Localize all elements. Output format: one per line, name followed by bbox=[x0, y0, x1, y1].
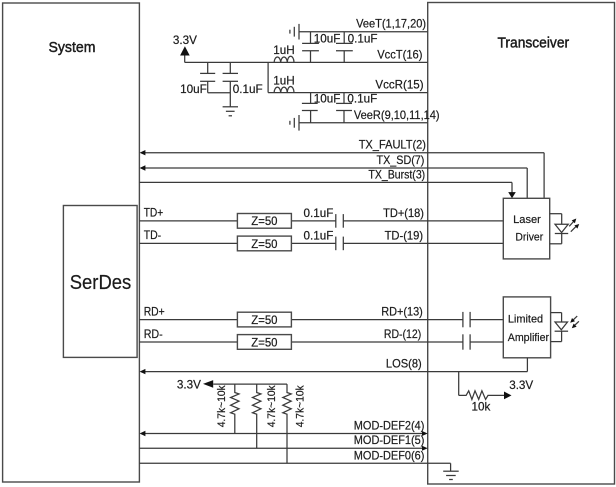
wire photodiode loop bottom bbox=[551, 341, 562, 343]
svg-text:TD+: TD+ bbox=[144, 207, 164, 220]
wire LED cathode lead bbox=[561, 234, 563, 244]
resistor Z=50 TD- bbox=[237, 236, 291, 251]
capacitor C10 bbox=[462, 334, 464, 349]
svg-text:MOD-DEF2(4): MOD-DEF2(4) bbox=[354, 420, 425, 433]
wire 3.3V pull-up rail bbox=[213, 383, 287, 385]
wire photodiode cathode lead bbox=[561, 331, 563, 341]
System box bbox=[3, 3, 140, 482]
wire TD+ segment 1 bbox=[139, 220, 237, 222]
resistor Z=50 RD- bbox=[237, 335, 291, 350]
arrow MOD-DEF2 into System bbox=[140, 431, 146, 436]
photodiode D2 triangle bbox=[555, 322, 568, 330]
wire LED anode loop top bbox=[550, 213, 562, 215]
svg-text:4.7k~10k: 4.7k~10k bbox=[266, 385, 278, 427]
photodiode D2 cathode bar bbox=[555, 330, 569, 332]
wire MOD-DEF0 drop to ground bbox=[450, 463, 452, 471]
wire VeeT rail bbox=[299, 31, 428, 33]
resistor R1 4.7k~10k pull-up bbox=[231, 384, 239, 433]
wire VccT rail bbox=[185, 61, 428, 63]
power arrow 3.3V up bbox=[180, 46, 190, 55]
wire RD+ segment 2 pin 13 bbox=[291, 319, 463, 321]
inductor L1 1uH bbox=[274, 56, 294, 62]
svg-text:VccT(16): VccT(16) bbox=[377, 48, 422, 61]
capacitor C9 bbox=[462, 312, 464, 327]
wire LOS vertical from Limited Amplifier bbox=[526, 358, 528, 372]
svg-text:Z=50: Z=50 bbox=[251, 238, 278, 251]
svg-text:0.1uF: 0.1uF bbox=[233, 83, 263, 96]
LED D1 cathode bar bbox=[555, 233, 568, 235]
capacitor C6 0.1uF bbox=[343, 93, 345, 104]
svg-text:Transceiver: Transceiver bbox=[498, 34, 570, 51]
wire MOD-DEF1 horizontal bbox=[139, 447, 426, 449]
resistor R3 4.7k~10k pull-up bbox=[283, 384, 291, 463]
wire RD- segment 2 pin 12 bbox=[291, 341, 463, 343]
arrow MOD-DEF1 into Transceiver bbox=[422, 446, 428, 451]
svg-text:System: System bbox=[48, 39, 95, 56]
wire TD- segment 2 bbox=[291, 242, 335, 244]
arrow LOS into System bbox=[140, 369, 146, 374]
svg-text:TD-: TD- bbox=[144, 229, 162, 242]
wire MOD-DEF0 horizontal bbox=[139, 462, 450, 464]
ground G4 bbox=[443, 470, 459, 472]
svg-text:Z=50: Z=50 bbox=[251, 215, 278, 228]
wire TX_FAULT horizontal bbox=[141, 152, 544, 154]
capacitor C8 0.1uF bbox=[335, 237, 337, 251]
power arrow 3.3V left bbox=[203, 380, 213, 388]
svg-text:TD-(19): TD-(19) bbox=[385, 229, 424, 242]
capacitor C7 0.1uF bbox=[335, 214, 337, 228]
svg-text:SerDes: SerDes bbox=[70, 272, 132, 294]
svg-text:3.3V: 3.3V bbox=[173, 34, 197, 47]
svg-text:TX_SD(7): TX_SD(7) bbox=[377, 154, 425, 167]
svg-text:Driver: Driver bbox=[515, 231, 543, 243]
arrow TX_FAULT into System bbox=[140, 150, 146, 155]
svg-text:RD+(13): RD+(13) bbox=[381, 306, 423, 319]
svg-text:4.7k~10k: 4.7k~10k bbox=[216, 385, 228, 427]
svg-text:VccR(15): VccR(15) bbox=[375, 79, 423, 92]
wire TX_Burst horizontal bbox=[139, 181, 512, 183]
arrow TX_SD into System bbox=[140, 165, 146, 170]
wire RD- segment 3 to Limited Amplifier bbox=[470, 341, 503, 343]
svg-text:TX_Burst(3): TX_Burst(3) bbox=[368, 168, 425, 181]
svg-text:VeeT(1,17,20): VeeT(1,17,20) bbox=[356, 18, 426, 31]
LED D1 light arrow 1 bbox=[569, 222, 573, 227]
LED D1 triangle bbox=[555, 224, 568, 232]
wire TD- segment 1 bbox=[139, 242, 237, 244]
wire TX_SD horizontal bbox=[141, 167, 527, 169]
svg-text:RD-: RD- bbox=[144, 328, 163, 341]
svg-text:MOD-DEF0(6): MOD-DEF0(6) bbox=[354, 449, 425, 462]
arrow MOD-DEF2 into Transceiver bbox=[422, 431, 428, 436]
wire TD- segment 3 to Laser Driver pin 19 bbox=[343, 242, 503, 244]
capacitor C3 10uF bbox=[310, 32, 312, 44]
svg-text:10uF: 10uF bbox=[180, 83, 207, 96]
wire VccR rail bbox=[268, 92, 428, 94]
svg-text:Limited: Limited bbox=[508, 313, 543, 325]
resistor Z=50 TD+ bbox=[237, 214, 291, 229]
svg-text:0.1uF: 0.1uF bbox=[304, 230, 334, 243]
svg-text:Z=50: Z=50 bbox=[251, 314, 278, 327]
wire RD+ segment 3 to Limited Amplifier bbox=[470, 319, 503, 321]
Transceiver box bbox=[428, 3, 615, 485]
wire TX_SD vertical to Laser Driver bbox=[526, 168, 528, 198]
wire LOS pull-up drop bbox=[458, 372, 460, 396]
svg-text:RD+: RD+ bbox=[144, 306, 165, 319]
LED D1 light arrow 2 bbox=[571, 227, 576, 232]
svg-text:0.1uF: 0.1uF bbox=[347, 93, 377, 106]
ground G1 bbox=[223, 106, 238, 108]
wire TD+ segment 2 bbox=[291, 220, 335, 222]
wire MOD-DEF2 horizontal bbox=[141, 433, 426, 435]
svg-text:1uH: 1uH bbox=[273, 74, 294, 87]
wire TD+ segment 3 to Laser Driver pin 18 bbox=[343, 220, 503, 222]
resistor Z=50 RD+ bbox=[237, 312, 291, 327]
photodiode D2 light arrow 1 bbox=[573, 316, 577, 320]
capacitor C1 10uF bbox=[207, 62, 209, 73]
SerDes box bbox=[63, 206, 137, 358]
wire TX_FAULT vertical to Laser Driver bbox=[543, 153, 545, 199]
svg-text:TX_FAULT(2): TX_FAULT(2) bbox=[359, 139, 426, 152]
svg-text:LOS(8): LOS(8) bbox=[386, 358, 422, 371]
wire TX_Burst vertical bbox=[511, 182, 513, 192]
svg-text:Laser: Laser bbox=[513, 214, 541, 226]
wire RD+ segment 1 bbox=[139, 319, 237, 321]
capacitor C5 10uF bbox=[310, 93, 312, 104]
svg-text:TD+(18): TD+(18) bbox=[383, 207, 424, 220]
inductor L2 1uH bbox=[274, 86, 294, 92]
svg-text:1uH: 1uH bbox=[273, 44, 294, 57]
wire photodiode anode lead bbox=[561, 313, 563, 322]
wire photodiode loop top bbox=[551, 312, 562, 314]
op-amp U2 Limited Amplifier bbox=[503, 297, 550, 358]
capacitor C4 0.1uF bbox=[343, 32, 345, 44]
resistor R4 10k bbox=[459, 391, 504, 400]
wire LED anode lead bbox=[561, 214, 563, 225]
ground G2 sideways bbox=[298, 24, 300, 40]
photodiode D2 light arrow 2 bbox=[575, 321, 579, 325]
op-amp U1 Laser Driver bbox=[503, 198, 549, 259]
svg-text:4.7k~10k: 4.7k~10k bbox=[294, 385, 306, 427]
wire VeeR rail bbox=[299, 122, 428, 124]
svg-text:3.3V: 3.3V bbox=[177, 378, 201, 391]
svg-text:VeeR(9,10,11,14): VeeR(9,10,11,14) bbox=[354, 109, 440, 122]
svg-text:Z=50: Z=50 bbox=[251, 336, 278, 349]
wire cap bottoms connector bbox=[208, 92, 231, 94]
wire RD- segment 1 bbox=[139, 341, 237, 343]
wire junction drop to VccR bbox=[267, 62, 269, 92]
svg-text:10k: 10k bbox=[471, 400, 490, 413]
svg-text:RD-(12): RD-(12) bbox=[384, 328, 421, 341]
svg-text:3.3V: 3.3V bbox=[509, 379, 533, 392]
svg-text:0.1uF: 0.1uF bbox=[304, 207, 334, 220]
svg-text:Amplifier: Amplifier bbox=[508, 332, 550, 344]
ground G3 sideways bbox=[298, 115, 300, 131]
resistor R2 4.7k~10k pull-up bbox=[253, 384, 261, 448]
arrow TX_Burst into Laser Driver bbox=[508, 192, 516, 198]
wire 3.3V stub bbox=[184, 56, 186, 63]
svg-text:MOD-DEF1(5): MOD-DEF1(5) bbox=[354, 434, 425, 447]
capacitor C2 0.1uF bbox=[229, 62, 231, 73]
wire LED cathode loop bottom bbox=[550, 243, 562, 245]
wire LOS horizontal bbox=[141, 371, 527, 373]
power arrow 3.3V right bbox=[504, 392, 512, 400]
svg-text:0.1uF: 0.1uF bbox=[348, 33, 378, 46]
